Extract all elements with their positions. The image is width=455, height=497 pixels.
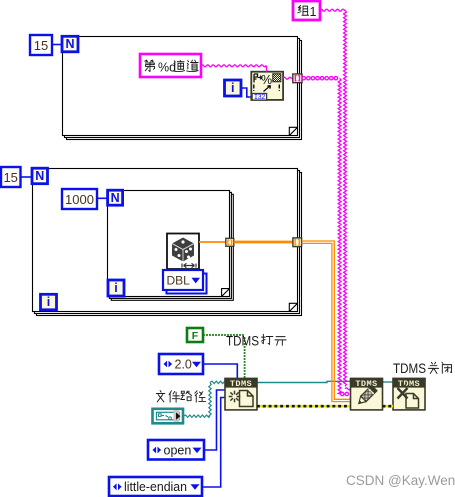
1D array wire inner tunnel to outer tunnel bbox=[234, 241, 293, 244]
string constant 组1 bbox=[293, 1, 320, 20]
watermark CSDN @Kay.Wen bbox=[346, 473, 455, 488]
enum constant open bbox=[148, 440, 204, 460]
error wire write to close bbox=[383, 405, 394, 408]
wire 15 to outer N bbox=[21, 176, 33, 178]
string wire from 组1 to TDMS write bbox=[320, 9, 351, 390]
svg-text:I32: I32 bbox=[254, 94, 265, 102]
wire open to TDMS open bbox=[204, 390, 225, 450]
TDMS Close node bbox=[393, 378, 425, 410]
boolean constant F bbox=[187, 328, 203, 342]
label TDMS打开 bbox=[226, 333, 286, 348]
svg-text:%d: %d bbox=[158, 61, 176, 75]
svg-text:15: 15 bbox=[3, 170, 17, 185]
for-loop frame (top loop) bbox=[63, 37, 302, 140]
numeric constant 15 (top loop count) bbox=[30, 35, 52, 55]
tdms refnum wire write to close bbox=[383, 381, 394, 383]
svg-text:i: i bbox=[231, 81, 234, 95]
svg-text:little-endian: little-endian bbox=[124, 480, 187, 494]
string constant 第%d通道 bbox=[140, 54, 201, 77]
for-loop frame (inner loop) bbox=[108, 191, 234, 301]
file path constant bbox=[153, 409, 184, 424]
TDMS Open node bbox=[225, 378, 257, 410]
svg-text:TDMS: TDMS bbox=[398, 379, 420, 389]
iteration terminal i (top loop) bbox=[225, 80, 242, 96]
enum constant 2.0 bbox=[159, 354, 203, 374]
svg-text:F: F bbox=[192, 330, 199, 342]
tdms refnum wire open to write bbox=[257, 381, 351, 382]
random number node (dice) bbox=[167, 234, 199, 270]
inner loop tunnel (auto-index) bbox=[226, 238, 234, 246]
path wire to TDMS open bbox=[184, 381, 226, 417]
error wire open to write bbox=[257, 405, 351, 408]
scalar wire dice to inner tunnel bbox=[199, 241, 226, 243]
wire little-endian to TDMS open bbox=[202, 398, 225, 488]
numeric constant 15 (outer loop count) bbox=[1, 167, 21, 187]
svg-text:%: % bbox=[261, 73, 272, 87]
format-into-string node bbox=[251, 72, 283, 102]
wire 15 to N bbox=[52, 44, 62, 46]
svg-text:i: i bbox=[47, 295, 50, 309]
svg-text:TDMS: TDMS bbox=[230, 379, 252, 389]
svg-text:DBL: DBL bbox=[167, 274, 191, 288]
TDMS Write node bbox=[351, 378, 383, 410]
svg-text:N: N bbox=[35, 169, 44, 183]
output tunnel of top loop bbox=[293, 74, 302, 83]
svg-text:TDMS: TDMS bbox=[393, 361, 426, 376]
2D array wire to TDMS write bbox=[302, 241, 351, 402]
svg-text:N: N bbox=[111, 191, 120, 205]
enum constant little-endian bbox=[109, 477, 202, 496]
wire format node to loop tunnel bbox=[283, 77, 293, 79]
svg-text:i: i bbox=[114, 281, 117, 295]
count terminal N of outer loop bbox=[32, 168, 48, 184]
svg-text:2.0: 2.0 bbox=[175, 358, 192, 372]
svg-text:N: N bbox=[65, 37, 74, 51]
svg-text:open: open bbox=[164, 443, 192, 457]
svg-text:TDMS: TDMS bbox=[226, 333, 259, 348]
wire string constant to format node bbox=[201, 65, 267, 72]
for-loop frame (bottom outer loop) bbox=[33, 169, 302, 316]
boolean wire F to TDMS open bbox=[203, 334, 245, 378]
count terminal N of inner loop bbox=[108, 190, 123, 205]
outer loop tunnel (auto-index) bbox=[293, 238, 302, 247]
wire 2.0 to TDMS open bbox=[203, 364, 237, 378]
count terminal N of top loop bbox=[62, 36, 78, 52]
numeric constant 1000 bbox=[62, 189, 97, 209]
iteration terminal i (outer loop) bbox=[41, 294, 57, 310]
label TDMS关闭 bbox=[393, 361, 452, 376]
svg-text:CSDN @Kay.Wen: CSDN @Kay.Wen bbox=[346, 473, 455, 488]
svg-text:15: 15 bbox=[34, 38, 48, 53]
svg-text:1: 1 bbox=[310, 5, 317, 19]
wire i to format node bbox=[241, 88, 252, 97]
DBL representation selector bbox=[163, 270, 207, 294]
wire 1000 to inner N bbox=[97, 197, 108, 199]
label 文件路径 bbox=[156, 391, 205, 403]
svg-text:1000: 1000 bbox=[65, 192, 94, 207]
string-array wire from top tunnel bbox=[302, 77, 348, 396]
iteration terminal i (inner loop) bbox=[108, 280, 124, 296]
